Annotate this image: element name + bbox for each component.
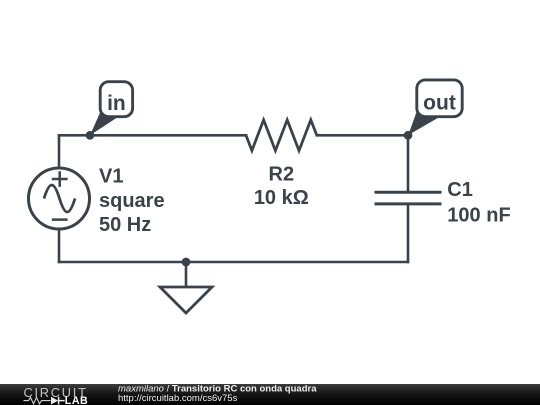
svg-text:C1: C1: [447, 179, 473, 201]
ground triangle: [160, 287, 212, 313]
V1 minus sign: [52, 218, 68, 221]
capacitor C1 top plate: [375, 191, 442, 194]
resistor R2 zigzag: [246, 120, 317, 151]
node out junction dot: [404, 131, 413, 140]
ground junction dot: [182, 258, 191, 267]
svg-text:V1: V1: [99, 166, 123, 188]
svg-text:50 Hz: 50 Hz: [99, 214, 151, 236]
node in label box: [100, 82, 132, 117]
wire right vertical top (out node to C1 top plate): [407, 135, 410, 192]
node in junction dot: [86, 131, 95, 140]
node out label box: [417, 80, 462, 117]
logo schematic squiggle wire: [24, 397, 51, 403]
wire left vertical top (in node to V1 plus terminal): [58, 135, 61, 168]
wire top-left horizontal (in node to resistor): [59, 134, 246, 137]
wire right vertical bottom (C1 bottom plate to bottom net): [407, 204, 410, 262]
V1 plus sign: [52, 171, 68, 187]
voltage source V1 circle: [29, 168, 90, 229]
wire left vertical bottom (V1 minus terminal to bottom net): [58, 229, 61, 262]
node in pointer wedge: [90, 111, 118, 136]
svg-text:100 nF: 100 nF: [447, 205, 510, 227]
svg-text:LAB: LAB: [65, 395, 88, 405]
node out pointer wedge: [408, 107, 439, 136]
svg-text:R2: R2: [269, 164, 295, 186]
capacitor C1 bottom plate: [375, 202, 442, 205]
ground stem: [185, 262, 188, 287]
wire bottom horizontal (ground net): [59, 261, 408, 264]
svg-text:square: square: [99, 190, 165, 212]
svg-text:http://circuitlab.com/cs6v75s: http://circuitlab.com/cs6v75s: [118, 393, 238, 404]
V1 sine wave: [44, 185, 75, 212]
svg-text:in: in: [107, 92, 126, 115]
logo diode cathode bar: [59, 397, 65, 405]
svg-text:10 kΩ: 10 kΩ: [254, 187, 309, 209]
wire top-right horizontal (resistor to out node): [317, 134, 408, 137]
logo diode symbol: [51, 397, 58, 405]
svg-text:out: out: [423, 91, 456, 114]
